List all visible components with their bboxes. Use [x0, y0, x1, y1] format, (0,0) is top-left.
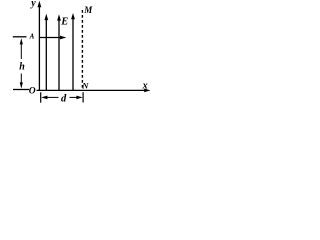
- d dimension left arrow: [41, 96, 58, 100]
- label y: [30, 0, 36, 9]
- field line 1: [44, 14, 48, 91]
- velocity arrow from A: [39, 36, 66, 40]
- label E (field): [60, 16, 68, 27]
- label O (origin): [29, 87, 36, 97]
- svg-text:y: y: [30, 0, 36, 9]
- svg-text:d: d: [61, 94, 67, 105]
- field line 3: [71, 13, 75, 91]
- svg-text:N: N: [81, 81, 89, 91]
- label M: [83, 5, 93, 15]
- d dimension right bar: [82, 92, 84, 102]
- svg-text:x: x: [142, 81, 148, 92]
- x-axis: [37, 89, 151, 93]
- svg-text:h: h: [19, 61, 25, 72]
- h dimension top bar: [13, 36, 27, 38]
- svg-text:M: M: [83, 5, 93, 15]
- field line 2: [57, 14, 61, 91]
- label x: [142, 81, 148, 92]
- h dimension upper arrow: [20, 38, 23, 59]
- dashed line MN: [81, 10, 83, 90]
- h dimension bottom bar: [13, 89, 29, 91]
- label d: [61, 94, 67, 105]
- svg-text:E: E: [60, 16, 68, 27]
- d dimension right arrow: [70, 96, 83, 100]
- y-axis: [38, 1, 42, 91]
- svg-text:A: A: [29, 33, 35, 41]
- label h: [19, 61, 25, 72]
- label A: [29, 33, 35, 41]
- h dimension lower arrow: [20, 74, 23, 89]
- svg-text:O: O: [29, 87, 36, 97]
- label N: [81, 81, 89, 91]
- d dimension left bar: [40, 92, 42, 102]
